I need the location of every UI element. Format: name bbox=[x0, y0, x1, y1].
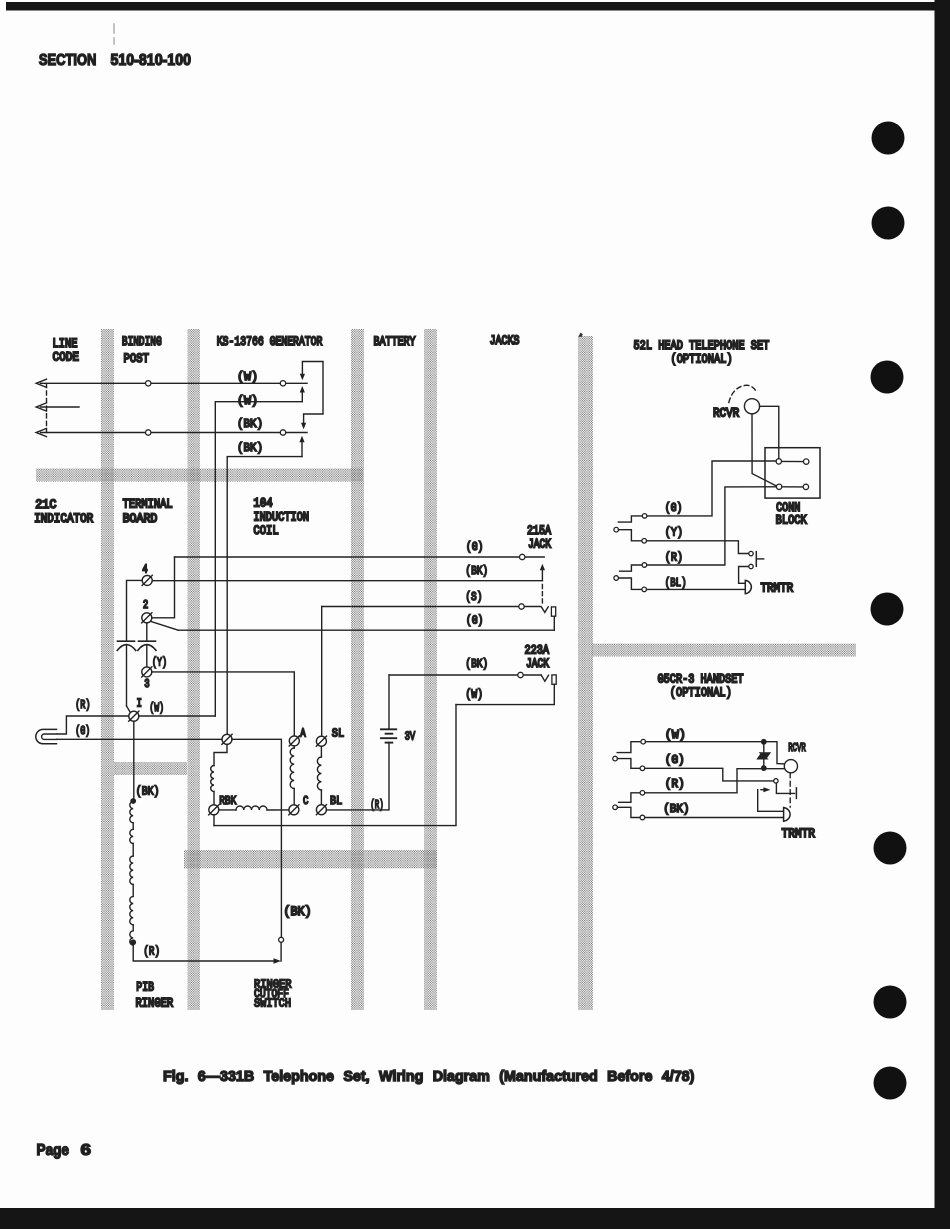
svg-text:(G): (G) bbox=[665, 502, 683, 515]
binding post circle wire 1 bbox=[146, 381, 151, 386]
terminal BL bbox=[316, 805, 326, 815]
binder hole dot 3 bbox=[871, 361, 904, 394]
long wire (S) to 215A jack bbox=[322, 606, 541, 608]
bottom black bar bbox=[0, 1208, 950, 1229]
svg-text:RCVR: RCVR bbox=[788, 741, 806, 754]
junction dot (G) varistor bbox=[761, 765, 767, 771]
svg-text:PIB: PIB bbox=[136, 979, 154, 995]
label RINGER CUTOFF SWITCH bbox=[254, 979, 292, 992]
wire RCVR to conn block top bbox=[760, 406, 779, 458]
g5 cord lead (BK) bbox=[617, 807, 640, 817]
svg-text:SWITCH: SWITCH bbox=[254, 998, 291, 1011]
svg-text:INDICATOR: INDICATOR bbox=[34, 511, 93, 526]
label (R) battery lead bbox=[370, 799, 383, 812]
svg-text:(BK): (BK) bbox=[237, 443, 263, 455]
label KS-13766 GENERATOR bbox=[217, 334, 323, 350]
terminal circle wire 1 right bbox=[280, 381, 285, 386]
receiver element bar bbox=[755, 552, 757, 567]
induction coil winding RBK-C horizontal bbox=[219, 809, 236, 811]
arrowhead line 1 bbox=[36, 379, 46, 387]
wire coil input step bbox=[214, 744, 227, 765]
svg-text:(OPTIONAL): (OPTIONAL) bbox=[671, 351, 733, 367]
svg-text:JACK: JACK bbox=[528, 537, 551, 552]
wire T2 diagonal to (G) jack wire bbox=[151, 621, 179, 630]
svg-text:I: I bbox=[137, 698, 142, 711]
wire (W) line-code to generator bbox=[41, 382, 308, 384]
svg-text:(Y): (Y) bbox=[152, 656, 167, 670]
svg-text:A: A bbox=[300, 727, 306, 740]
capacitor C2 (T2-T3) bbox=[146, 623, 148, 641]
label JACKS bbox=[490, 333, 520, 349]
label (R) ringer bbox=[143, 946, 160, 959]
generator arrow down to (W) bbox=[300, 374, 305, 381]
bottom wire run to 223A (W) bbox=[214, 705, 456, 826]
svg-text:SL: SL bbox=[332, 728, 344, 741]
svg-text:JACKS: JACKS bbox=[490, 333, 520, 349]
label LINE CODE bbox=[53, 336, 78, 352]
svg-text:3V: 3V bbox=[405, 730, 416, 744]
52L cord stub (G) bbox=[618, 516, 642, 522]
svg-text:2: 2 bbox=[143, 599, 148, 612]
svg-text:(W): (W) bbox=[149, 702, 164, 716]
hatch bar horizontal: lower divider bbox=[184, 850, 437, 869]
ringer coil P1B bbox=[130, 802, 133, 823]
223A jack sleeve bbox=[552, 675, 556, 684]
label G5CR-3 HANDSET bbox=[658, 671, 744, 687]
arrowhead line 2 bbox=[36, 403, 46, 411]
terminal C bbox=[289, 805, 299, 815]
52L cord stub (R) bbox=[620, 565, 643, 571]
battery 3V bbox=[381, 728, 396, 730]
g5 cord lead (G) bbox=[617, 759, 640, 769]
junction dot ringer top bbox=[130, 798, 136, 804]
215A jack spring contact V bbox=[541, 607, 548, 613]
svg-text:(BK): (BK) bbox=[136, 786, 160, 799]
svg-text:(R): (R) bbox=[143, 946, 160, 959]
label 215A JACK bbox=[527, 522, 552, 538]
terminal 2 bbox=[142, 613, 152, 623]
svg-text:223A: 223A bbox=[525, 642, 550, 658]
wire (R) 52L bbox=[665, 552, 683, 565]
binder hole dot 6 bbox=[874, 986, 907, 1019]
52L plug circle (R) bbox=[642, 563, 647, 568]
binder hole dot 2 bbox=[872, 207, 905, 240]
hatch bar: battery / jacks divider bbox=[424, 329, 437, 1010]
svg-text:JACK: JACK bbox=[526, 657, 549, 672]
arrowhead line 3 bbox=[36, 428, 46, 436]
wire (W) into 223A sleeve bbox=[456, 684, 554, 704]
receiver element contact 1 bbox=[749, 551, 753, 555]
52L plug circle (BL) bbox=[642, 587, 647, 592]
label BINDING POST bbox=[122, 335, 162, 350]
label 104 INDUCTION COIL bbox=[253, 495, 272, 510]
wire (G) 52L bbox=[665, 502, 683, 515]
generator arrow up from wire 2 bbox=[301, 391, 303, 402]
svg-text:(BL): (BL) bbox=[665, 577, 687, 590]
wire (BL) 52L to TRMTR bbox=[665, 577, 687, 590]
wire (Y) 52L to receiver element bbox=[665, 527, 683, 540]
label 223A JACK bbox=[525, 642, 550, 658]
svg-text:TERMINAL: TERMINAL bbox=[123, 496, 173, 512]
receiver element contact 2 bbox=[749, 564, 753, 568]
svg-text:(W): (W) bbox=[465, 689, 483, 702]
wire (BK) line-code to generator bbox=[41, 432, 308, 434]
wire (W) g5 bbox=[665, 728, 686, 742]
g5 plug circle (R) bbox=[640, 791, 645, 796]
wire T1 down to ringer bbox=[133, 721, 135, 801]
hatch bar: generator / battery divider bbox=[351, 329, 364, 1010]
label (BK) wire 4 bbox=[237, 443, 263, 455]
label P1B RINGER bbox=[136, 979, 154, 995]
label (W) 223A bbox=[465, 689, 483, 702]
binding post circle wire 3 bbox=[146, 430, 151, 435]
label (BK) jack wire bbox=[465, 565, 488, 578]
label BATTERY bbox=[374, 334, 416, 350]
svg-text:(W): (W) bbox=[237, 370, 258, 384]
svg-text:(S): (S) bbox=[465, 591, 482, 604]
g5 cord circle (G) bbox=[613, 756, 618, 761]
svg-text:(R): (R) bbox=[665, 778, 685, 791]
label (W) wire 1 bbox=[237, 370, 258, 384]
long wire (G) to 215A jack bbox=[175, 556, 545, 558]
handset dashed link bbox=[789, 773, 791, 807]
wire RBK drop to bottom run bbox=[213, 815, 215, 826]
dashed line-code conductor bbox=[46, 383, 48, 432]
wire (G) g5 to receiver contact bbox=[665, 754, 685, 767]
wire arrow riser to TRMTR bbox=[758, 790, 784, 812]
svg-text:RBK: RBK bbox=[219, 795, 237, 808]
wire (R) indicator to T1 bbox=[57, 716, 129, 734]
svg-text:(R): (R) bbox=[665, 552, 683, 565]
wire BL to battery bbox=[326, 743, 389, 810]
wire (G) indicator lamp bbox=[57, 738, 225, 740]
diaphragm bar g5 bbox=[795, 788, 797, 799]
g5 cord circle (BK) bbox=[613, 805, 618, 810]
svg-text:RCVR: RCVR bbox=[713, 405, 739, 420]
label (G) sleeve wire bbox=[466, 615, 483, 628]
transmitter TRMTR 52L bbox=[745, 580, 751, 593]
215A jack dashed spring bbox=[541, 585, 543, 605]
terminal SL bbox=[316, 736, 326, 746]
wire T1 to generator riser bbox=[139, 715, 216, 717]
52L plug circle (Y) bbox=[642, 539, 647, 544]
svg-text:(G): (G) bbox=[75, 725, 90, 739]
svg-text:POST: POST bbox=[124, 351, 149, 366]
svg-text:510-810-100: 510-810-100 bbox=[111, 52, 192, 69]
label (BK) cutoff bbox=[284, 904, 312, 919]
svg-text:Fig. 6—331B Telephone Set, Wir: Fig. 6—331B Telephone Set, Wiring Diagra… bbox=[163, 1069, 695, 1085]
hatch bar horizontal: upper section divider bbox=[36, 469, 363, 482]
terminal RBK bbox=[209, 805, 219, 815]
induction coil winding A-C bbox=[293, 746, 295, 748]
conn block contact bottom pair bbox=[776, 484, 781, 489]
svg-text:BLOCK: BLOCK bbox=[776, 512, 808, 528]
21C indicator lamp bbox=[36, 729, 57, 743]
binder hole dot 5 bbox=[874, 832, 907, 865]
wire T4 left drop to T1 bbox=[127, 580, 143, 641]
svg-text:(BK): (BK) bbox=[237, 419, 263, 431]
jack circle on (S) wire bbox=[519, 604, 524, 609]
conn block bbox=[765, 448, 820, 498]
binder hole dot 7 bbox=[874, 1067, 907, 1100]
label (BK) wire 3 bbox=[237, 419, 263, 431]
g5 cord stub (R) bbox=[619, 793, 641, 803]
svg-text:(BK): (BK) bbox=[465, 658, 488, 671]
svg-text:SECTION: SECTION bbox=[39, 52, 97, 69]
label (W) wire 2 bbox=[237, 394, 258, 408]
223A jack spring contact V bbox=[541, 675, 548, 681]
svg-text:Page: Page bbox=[37, 1142, 70, 1159]
svg-text:(Y): (Y) bbox=[665, 527, 683, 540]
induction coil winding RBK bbox=[211, 766, 214, 792]
junction dot (W) varistor bbox=[761, 739, 767, 745]
52L cord circle (Y) bbox=[614, 527, 619, 532]
svg-text:RINGER: RINGER bbox=[136, 995, 174, 1011]
svg-text:3: 3 bbox=[144, 678, 149, 691]
cutoff switch arrow bbox=[274, 958, 282, 963]
receiver contact g5 bbox=[774, 779, 778, 783]
binder hole dot 1 bbox=[872, 122, 905, 155]
wire T3 to coil terminal A bbox=[152, 672, 294, 736]
terminal circle wire 3 right bbox=[280, 430, 285, 435]
wire ringer to cutoff switch bbox=[133, 942, 276, 961]
label (BK) ringer bbox=[136, 786, 160, 799]
receiver RCVR g5 bbox=[784, 760, 797, 773]
label (R) indicator bbox=[75, 699, 90, 713]
right black margin bar bbox=[935, 0, 950, 1229]
svg-text:CODE: CODE bbox=[53, 350, 80, 365]
wire into terminal 1 top bbox=[127, 706, 131, 713]
svg-text:BOARD: BOARD bbox=[123, 511, 158, 526]
receiver contact lead to diaphragm bbox=[776, 783, 794, 793]
svg-text:(R): (R) bbox=[75, 699, 90, 713]
svg-text:4: 4 bbox=[142, 563, 147, 576]
svg-text:TRMTR: TRMTR bbox=[761, 581, 794, 596]
svg-text:C: C bbox=[303, 795, 308, 808]
hatch bar: jacks / optional sets divider bbox=[578, 336, 593, 1010]
wire (BK) from coil terminal riser bbox=[227, 457, 302, 735]
long wire (G) to 215A sleeve bbox=[178, 629, 554, 631]
hatch bar: line code / binding post divider bbox=[101, 329, 114, 1010]
generator arrow up from wire 4 bbox=[301, 441, 303, 457]
terminal A bbox=[289, 736, 299, 746]
jack circle on (BK) wire bbox=[518, 672, 523, 677]
conn block contact top pair bbox=[776, 459, 781, 464]
receiver RCVR 52L bbox=[744, 399, 759, 414]
hookswitch arrow g5 bbox=[761, 789, 766, 791]
faint fold mark bbox=[113, 24, 115, 44]
top black bar bbox=[6, 2, 941, 11]
svg-text:BL: BL bbox=[330, 795, 342, 808]
binder hole dot 4 bbox=[871, 593, 904, 626]
svg-text:KS-13766 GENERATOR: KS-13766 GENERATOR bbox=[217, 334, 323, 350]
generator arrow down to (BK) bbox=[301, 423, 306, 430]
long wire (BK) T4 to 215A jack bbox=[152, 580, 542, 582]
g5 cord stub (W) bbox=[617, 742, 641, 753]
52L plug circle (G) bbox=[642, 514, 647, 519]
svg-text:(G): (G) bbox=[466, 615, 483, 628]
label (S) jack wire bbox=[465, 591, 482, 604]
wire T2 up riser to (G) wire bbox=[152, 557, 175, 618]
tick at jacks divider top bbox=[578, 333, 583, 337]
terminal 1 bbox=[129, 711, 139, 721]
wire (W) from terminal 1 riser bbox=[215, 402, 302, 716]
svg-text:(W): (W) bbox=[665, 728, 686, 742]
52L cord lead (BL) bbox=[619, 578, 642, 589]
wire (G) corner down to cutoff switch bbox=[232, 739, 281, 937]
label TERMINAL BOARD bbox=[123, 496, 173, 512]
wire SL riser to (S) jack wire bbox=[321, 607, 323, 737]
wire stub middle conductor bbox=[41, 406, 80, 408]
svg-text:BATTERY: BATTERY bbox=[374, 334, 416, 350]
hatch bar horizontal: 52L / G5CR divider bbox=[592, 644, 856, 657]
hatch bar horizontal: indicator bridge bbox=[114, 762, 187, 775]
label (BK) 223A bbox=[465, 658, 488, 671]
svg-text:BINDING: BINDING bbox=[122, 335, 162, 350]
wire (R) g5 to receiver bbox=[665, 778, 685, 791]
svg-text:(OPTIONAL): (OPTIONAL) bbox=[670, 685, 732, 701]
capacitor C1 (on T4-T1 lead) bbox=[118, 640, 135, 642]
wire (G) into 215A sleeve bbox=[553, 616, 555, 630]
terminal 3 bbox=[142, 667, 152, 677]
terminal circle on (G) wire bbox=[222, 734, 232, 744]
transmitter TRMTR g5 bbox=[784, 808, 790, 822]
svg-text:(R): (R) bbox=[370, 799, 383, 812]
svg-text:TRMTR: TRMTR bbox=[782, 826, 816, 841]
junction dot ringer bottom bbox=[130, 939, 136, 945]
wire (BK) g5 to TRMTR bbox=[663, 804, 689, 816]
52L cord lead (Y) bbox=[619, 530, 642, 541]
g5 plug circle (G) bbox=[640, 766, 645, 771]
svg-text:(W): (W) bbox=[237, 394, 258, 408]
hatch bar: binding post / generator divider bbox=[188, 329, 201, 1010]
headband dashed arc bbox=[729, 385, 757, 402]
svg-text:(BK): (BK) bbox=[284, 904, 312, 919]
varistor bbox=[763, 745, 765, 752]
svg-text:(G): (G) bbox=[665, 754, 685, 767]
wire contact 2 to TRMTR bbox=[739, 567, 749, 584]
svg-text:COIL: COIL bbox=[253, 523, 278, 539]
svg-text:(G): (G) bbox=[466, 541, 483, 554]
jack circle on (G) wire bbox=[520, 554, 525, 559]
svg-text:(BK): (BK) bbox=[663, 804, 689, 816]
wire (BK) battery to 223A jack bbox=[389, 674, 541, 676]
g5 plug circle (W) bbox=[641, 739, 646, 744]
215A jack sleeve bbox=[551, 607, 555, 616]
generator jumper loop bbox=[302, 362, 323, 424]
induction coil winding SL-BL bbox=[320, 746, 322, 757]
label 21C INDICATOR bbox=[35, 497, 56, 512]
svg-text:215A: 215A bbox=[527, 522, 552, 538]
label (G) jack wire bbox=[466, 541, 483, 554]
svg-text:6: 6 bbox=[81, 1142, 92, 1159]
wire RCVR bottom to conn block bbox=[752, 414, 777, 486]
215A jack tip arrow bbox=[541, 570, 543, 581]
svg-text:(BK): (BK) bbox=[465, 565, 488, 578]
52L cord circle (BL) bbox=[614, 576, 619, 581]
wire battery top riser to 223A (BK) bbox=[388, 675, 390, 729]
label 52L HEAD TELEPHONE SET bbox=[634, 338, 770, 354]
cutoff switch contact bbox=[279, 937, 284, 942]
terminal 4 bbox=[142, 575, 152, 585]
g5 plug circle (BK) bbox=[640, 815, 645, 820]
